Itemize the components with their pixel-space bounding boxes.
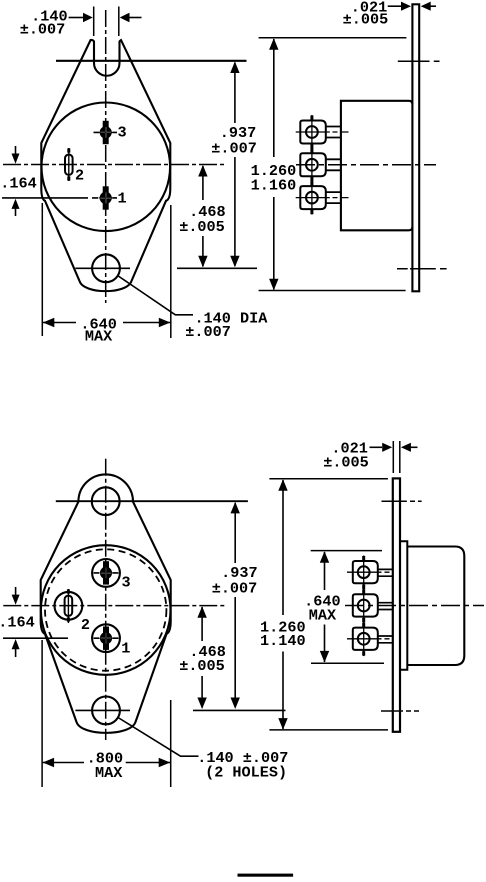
- dimension .164: arrows: [15, 146, 17, 158]
- dimension .640: extension lines: [311, 551, 384, 664]
- svg-text:2: 2: [81, 616, 90, 634]
- top hole dash line: [398, 60, 440, 62]
- pin 1: [99, 627, 113, 650]
- svg-text:MAX: MAX: [95, 764, 123, 782]
- bottom hole centerline: [75, 709, 285, 711]
- can body: [407, 547, 464, 666]
- svg-text:.164: .164: [0, 613, 35, 631]
- bottom hole dash line: [381, 710, 419, 712]
- pin 1 row line and dashes: [2, 197, 117, 199]
- pin 3: [99, 121, 113, 144]
- vertical centerline: [105, 459, 107, 740]
- dimension .800: extension lines: [42, 640, 171, 787]
- top hole datum line: [56, 500, 248, 502]
- top hole dash line: [382, 500, 422, 502]
- can circle: [42, 103, 171, 232]
- dimension 1.260/1.140: line: [282, 480, 284, 729]
- flange outline: [41, 40, 170, 291]
- dimension .021: leader left: [370, 446, 383, 448]
- svg-text:(2 HOLES): (2 HOLES): [205, 764, 287, 782]
- svg-text:±.007: ±.007: [212, 579, 258, 597]
- dimension .640: extension lines: [42, 203, 171, 338]
- dimension .021: leader right: [429, 5, 436, 7]
- svg-text:±.005: ±.005: [179, 657, 225, 675]
- top datum line: [56, 60, 247, 62]
- vertical centerline: [105, 10, 107, 303]
- bottom page rule: [238, 874, 294, 877]
- horizontal centerline: [3, 605, 225, 607]
- dimension .140 top: left arrow: [69, 17, 84, 19]
- svg-text:MAX: MAX: [85, 328, 113, 346]
- svg-text:±.007: ±.007: [20, 20, 66, 38]
- pin 1 row line and dashes: [3, 637, 119, 639]
- can circle: [41, 545, 171, 675]
- svg-text:.164: .164: [0, 175, 36, 193]
- dimension 1.260/1.140: extension lines: [269, 479, 388, 730]
- pin 2 circle: [55, 592, 83, 620]
- pin 1: [99, 186, 113, 209]
- dimension .640: line: [324, 552, 326, 662]
- dimension .937: line: [234, 63, 236, 266]
- horizontal centerline: [345, 605, 484, 607]
- horizontal centerline: [3, 164, 226, 166]
- svg-text:1: 1: [121, 640, 130, 658]
- bottom mounting hole: [92, 697, 120, 725]
- pin 1 circle: [92, 624, 120, 652]
- dimension .164: arrows: [15, 587, 17, 599]
- bottom mounting hole: [92, 254, 120, 282]
- svg-text:1.140: 1.140: [260, 632, 306, 650]
- pin 3 circle: [92, 559, 120, 587]
- dimension .800: line: [42, 762, 171, 764]
- terminal 1 (bottom): [296, 181, 349, 215]
- leader .140 DIA: [118, 276, 194, 315]
- flange (edge view): [412, 4, 419, 291]
- dimension .021: leader left: [388, 5, 402, 7]
- texts fig1: [0, 7, 268, 345]
- dimension .640: line: [42, 322, 171, 324]
- texts fig3: [0, 564, 288, 782]
- texts fig4: [260, 440, 369, 650]
- flange (edge view): [393, 478, 400, 731]
- dimension .021: extension lines: [393, 441, 400, 473]
- can weld rim: [400, 541, 407, 670]
- terminal 3 (top): [347, 556, 392, 590]
- dimension .021: leader right: [410, 446, 418, 448]
- bottom hole dash line: [397, 268, 447, 270]
- svg-text:3: 3: [121, 573, 130, 591]
- dimension .468: line: [202, 166, 204, 267]
- terminal 1 (bottom): [347, 622, 392, 656]
- pin 2 slot: [65, 596, 73, 616]
- svg-text:3: 3: [117, 124, 126, 142]
- terminal 2 (middle): [353, 589, 392, 623]
- dimension 1.260/1.160: line: [273, 39, 275, 290]
- pin 3 dashes: [94, 131, 118, 133]
- svg-text:2: 2: [75, 167, 84, 185]
- dimension .937: line: [234, 503, 236, 707]
- insulator dashed circle: [45, 549, 166, 670]
- pin 2 vertical centerline: [68, 148, 70, 181]
- svg-text:±.007: ±.007: [185, 323, 231, 341]
- bottom hole centerline: [75, 267, 257, 269]
- svg-text:1.160: 1.160: [251, 177, 297, 195]
- horizontal centerline: [296, 164, 436, 166]
- terminal 2 (middle): [300, 148, 341, 182]
- top mounting hole: [92, 487, 120, 515]
- dimension 1.260/1.160: extension lines: [259, 38, 407, 291]
- pin 3: [99, 561, 113, 584]
- svg-text:±.005: ±.005: [343, 11, 389, 29]
- svg-text:±.005: ±.005: [323, 453, 369, 471]
- terminal 3 (top): [296, 115, 349, 149]
- texts fig2: [251, 0, 389, 195]
- svg-text:±.007: ±.007: [211, 140, 257, 158]
- dimension .140 top: right arrow: [129, 17, 142, 19]
- pin 2 vertical centerline: [67, 589, 69, 623]
- svg-text:MAX: MAX: [309, 606, 337, 624]
- pin 2 slot: [65, 155, 73, 175]
- svg-text:±.005: ±.005: [179, 218, 225, 236]
- leader .140 (2 HOLES): [118, 718, 199, 757]
- flange outline: [41, 474, 171, 732]
- can body: [341, 101, 413, 231]
- dimension .468: line: [201, 607, 203, 708]
- svg-text:1: 1: [117, 189, 126, 207]
- dimension .140 top: extension lines: [94, 7, 119, 37]
